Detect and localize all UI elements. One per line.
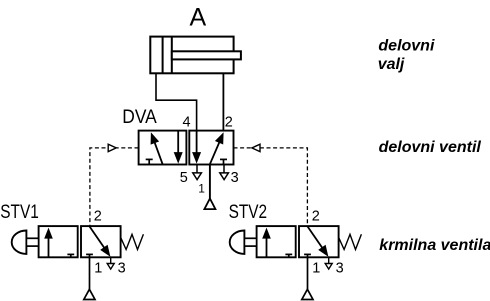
svg-text:3: 3 [118, 261, 126, 277]
STV2 port 1 pressure source triangle [302, 289, 313, 299]
pilot line left (dashed) from STV1 port 2 to DVA [90, 148, 139, 226]
svg-text:krmilna ventila: krmilna ventila [379, 237, 490, 254]
pilot arrowhead left (open, pointing right) [108, 144, 116, 151]
svg-text:delovni ventil: delovni ventil [379, 139, 482, 156]
DVA right position flow arrow (diagonal, port 1 to 2) [210, 132, 224, 164]
pilot arrowhead right (open, pointing left) [252, 144, 260, 151]
DVA left position flow arrow (diagonal, head up-left) [151, 132, 163, 164]
STV1 push button actuator [12, 231, 39, 254]
STV2 push button actuator [230, 231, 257, 254]
STV2 port 1 supply line [307, 257, 309, 289]
svg-text:5: 5 [180, 170, 188, 186]
DVA left position blocked port T [146, 159, 153, 164]
DVA port 1 supply line [209, 165, 211, 199]
valve DVA left position box [139, 131, 187, 165]
cylinder A (double-acting) [150, 37, 241, 74]
wire: cylinder right port to DVA port 2 [222, 73, 224, 130]
STV1 return spring [121, 234, 144, 249]
svg-text:STV2: STV2 [229, 202, 268, 223]
DVA port 5 stub [196, 165, 198, 173]
STV1 port 1 supply line [89, 257, 91, 289]
STV2 left position flow arrow (up) [262, 228, 271, 258]
svg-text:3: 3 [231, 170, 239, 186]
DVA right position flow arrow (down, port 4 to 5) [192, 131, 201, 164]
STV2 port 3 exhaust triangle [325, 264, 332, 270]
STV1 port 3 exhaust triangle [107, 264, 114, 270]
STV1 left position blocked port T [67, 254, 74, 257]
svg-text:2: 2 [94, 209, 102, 225]
STV1 left position box [39, 226, 78, 257]
svg-text:valj: valj [378, 56, 405, 73]
STV2 left position box [257, 226, 296, 257]
STV2 return spring [339, 234, 362, 249]
svg-text:2: 2 [312, 209, 320, 225]
svg-text:4: 4 [183, 114, 191, 130]
STV2 right position flow arrow (port 2 to 3 diagonal) [307, 226, 328, 257]
DVA port 1 pressure source triangle [204, 199, 215, 210]
svg-text:DVA: DVA [122, 107, 157, 128]
svg-text:1: 1 [312, 261, 320, 277]
STV1 right position box [81, 226, 121, 257]
svg-text:2: 2 [225, 114, 233, 130]
svg-text:1: 1 [94, 261, 102, 277]
svg-text:delovni: delovni [378, 38, 435, 55]
wire: cylinder left port to DVA port 4 [156, 73, 197, 130]
STV1 left position flow arrow (up) [44, 228, 53, 258]
svg-text:3: 3 [336, 261, 344, 277]
DVA port 3 exhaust triangle [220, 173, 229, 180]
DVA right position blocked port 3 T [220, 159, 227, 164]
STV1 port 3 stub [110, 257, 112, 263]
DVA port 3 stub [223, 165, 225, 173]
valve DVA right position box [189, 131, 233, 165]
STV2 right position blocked port 1 T [304, 254, 311, 257]
svg-text:A: A [190, 3, 207, 31]
DVA left position flow arrow (down) [174, 131, 183, 164]
STV2 left position blocked port T [285, 254, 292, 257]
STV1 right position blocked port 1 T [86, 254, 93, 257]
svg-text:1: 1 [198, 181, 205, 195]
STV2 port 3 stub [328, 257, 330, 263]
DVA port 5 exhaust triangle [193, 173, 202, 180]
STV1 port 1 pressure source triangle [84, 289, 95, 299]
STV1 right position flow arrow (port 2 to 3 diagonal) [89, 226, 110, 257]
svg-text:STV1: STV1 [0, 202, 39, 223]
pilot line right (dashed) from STV2 port 2 to DVA [234, 148, 308, 226]
STV2 right position box [299, 226, 339, 257]
